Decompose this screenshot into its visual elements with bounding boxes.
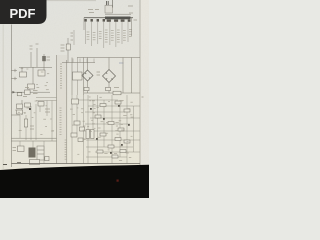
junction n1: [90, 108, 92, 110]
resistor R14: [115, 138, 121, 141]
wire v123: [122, 58, 124, 94]
resistor R6: [113, 91, 121, 95]
connector tick T1: [12, 69, 18, 72]
label C13: [45, 109, 50, 112]
capacitor C22: [45, 157, 49, 161]
pad P2: [114, 20, 118, 22]
wire v127: [126, 95, 128, 164]
resistor R10: [95, 115, 101, 118]
wire v31: [30, 106, 32, 140]
text specks: [15, 69, 133, 161]
capacitor C14: [72, 99, 79, 104]
wire h140: [86, 139, 140, 141]
wire v52: [51, 101, 53, 142]
pad P1: [107, 20, 111, 22]
wire v93: [92, 100, 94, 131]
diode D3: [106, 87, 111, 90]
wire v36: [35, 104, 37, 140]
wire h118: [90, 117, 140, 119]
wire v77: [76, 95, 78, 133]
connector arrow A1: [12, 91, 15, 94]
capacitor C13: [38, 102, 44, 107]
switch S1: [17, 93, 22, 96]
wire v120: [119, 100, 121, 157]
dense area horizontals: wire h100: [77, 99, 118, 101]
wire v47: [46, 101, 48, 117]
resistor R21 (vertical): [24, 119, 27, 127]
transistor Q1: [42, 54, 46, 67]
capacitor bank C2: [91, 19, 96, 46]
wire h157: [86, 156, 127, 158]
shaded spine strip: [57, 55, 68, 163]
cluster A: resistor R1: [30, 52, 32, 67]
resistor R19: [120, 150, 126, 153]
rail bus E: [77, 57, 140, 59]
capacitor bank C7: [122, 22, 126, 44]
bottom-left: wire h138: [12, 137, 57, 139]
wire h124: [85, 123, 130, 125]
pad P3: [121, 20, 125, 22]
junction n6: [121, 144, 123, 146]
wire bus left drop: [83, 18, 85, 30]
spine wire right: [66, 60, 68, 164]
capacitor bank C3: [97, 19, 102, 44]
scan grain overlay: [0, 0, 149, 170]
resistor R12: [118, 128, 124, 131]
wire h112: [85, 111, 125, 113]
page left border wire: [10, 25, 12, 168]
fuse F1: [18, 146, 25, 152]
wire h106: [88, 105, 140, 107]
vertical caption 3: [65, 140, 67, 159]
label R5: [23, 88, 38, 97]
page right edge line: [139, 0, 141, 165]
junction n3: [103, 118, 105, 120]
wire v79: [77, 58, 79, 96]
wire BR2 top: [108, 58, 110, 70]
capacitor bank C1: [84, 19, 89, 44]
right margin lighter strip: [141, 0, 150, 170]
label above bus 1: [88, 10, 99, 13]
relay K1: [20, 72, 27, 77]
label bottom-left 1: [3, 164, 7, 166]
page edge faint line: [2, 25, 4, 170]
spine wire left: [56, 55, 58, 164]
diode D1: [66, 38, 70, 63]
label BR1: [97, 72, 101, 75]
wire h115: [12, 114, 21, 116]
capacitor C11: [17, 110, 23, 114]
capacitor C17: [71, 133, 77, 137]
wire tick B2: [79, 59, 81, 63]
wire tick B4: [93, 59, 95, 63]
wire v97: [97, 95, 99, 164]
wire drop d40: [43, 141, 45, 164]
diode D2: [84, 87, 89, 90]
resistor R5: [25, 90, 31, 94]
pin 3 of J1: [111, 0, 113, 8]
wire v131b: [131, 58, 133, 94]
vertical caption 1: [60, 64, 62, 88]
pin 1 of J1: [106, 1, 108, 5]
junction n5: [96, 138, 98, 140]
bottom black band: [0, 165, 149, 198]
connector tick T2: [12, 77, 18, 80]
capacitor bank C6: [116, 22, 120, 47]
capacitor bank C5: [110, 22, 114, 45]
wire under J1: [105, 13, 131, 15]
node bus D: [84, 92, 140, 94]
capacitor C15: [74, 121, 80, 125]
resistor R16: [108, 145, 114, 148]
bus thick segment: [105, 17, 131, 20]
wire node bus B: [62, 62, 95, 64]
pin 2 of J1: [107, 1, 109, 5]
label top-right 1: [128, 5, 133, 7]
left circuit: wire drop a: [21, 67, 23, 72]
wire h100b: [36, 100, 57, 102]
resistor R7: [100, 104, 106, 107]
wire v83: [83, 58, 85, 96]
resistor R4: [38, 70, 45, 76]
resistor R20 hanging: [73, 30, 75, 45]
capacitor C12: [25, 103, 31, 107]
switch S2: [30, 160, 40, 165]
capacitor C21: [91, 130, 94, 139]
connector J1 (top block): [105, 5, 113, 13]
svg-text:PDF: PDF: [10, 6, 36, 21]
resistor R11: [108, 122, 114, 125]
wire v133: [133, 106, 135, 152]
junction n4: [128, 124, 130, 126]
resistor R17: [97, 150, 103, 153]
label D1: [61, 45, 65, 51]
wire drop b: [32, 67, 34, 84]
wire v20: [19, 115, 21, 138]
PDF badge: [0, 0, 47, 24]
resistor R18: [112, 155, 118, 158]
wire h97: [36, 97, 57, 99]
label R20: [71, 33, 74, 40]
wire v26: [25, 115, 27, 140]
resistor R3: [28, 84, 35, 89]
label R6: [114, 87, 119, 89]
resistor R8: [115, 101, 121, 104]
resistor R15: [124, 140, 130, 143]
left-mid: wire v22: [21, 100, 23, 115]
capacitor bank C8: [128, 22, 132, 42]
wire BR1 bottom: [87, 81, 89, 93]
wire v112: [111, 95, 113, 164]
resistor R9: [124, 109, 130, 112]
wire v104: [103, 100, 105, 147]
wire h131: [85, 130, 140, 132]
junction n2: [118, 105, 120, 107]
capacitor C10: [17, 104, 23, 109]
ground bus: [12, 163, 141, 165]
capacitor bank C4: [103, 19, 108, 48]
node bus C: [12, 91, 51, 93]
wire tick B1: [72, 59, 74, 63]
wire BR1 top: [87, 58, 89, 71]
wire node bus A: [19, 66, 52, 68]
wire tick B3: [86, 59, 88, 63]
capacitor C16: [80, 127, 85, 131]
dense verticals: wire v88: [87, 95, 89, 164]
junction n8: [29, 108, 31, 110]
resistor R13: [100, 133, 106, 136]
wire BR2 bottom: [108, 83, 110, 94]
relay K2: [37, 146, 44, 160]
margin mark: [142, 96, 144, 98]
label R2: [36, 43, 39, 45]
bridge rectifier BR1: [82, 70, 93, 81]
label Q1: [47, 57, 51, 60]
label R1: [30, 46, 33, 49]
vertical caption 2: [60, 108, 62, 134]
pad P4: [128, 20, 131, 22]
wire h152: [95, 151, 140, 153]
top edge smudge: [46, 0, 96, 2]
label R21: [30, 126, 34, 129]
label bottom-left 2: [17, 162, 21, 164]
bridge rectifier BR2: [103, 70, 116, 83]
transformer T10: [29, 148, 36, 158]
paper background: [0, 0, 149, 198]
right block wires: wire v72: [71, 58, 73, 96]
wire drop d20: [19, 141, 21, 146]
wire right corner drop: [131, 18, 133, 36]
wire drop c: [43, 67, 45, 70]
label top-right 2: [129, 12, 133, 14]
resistor R2: [36, 48, 38, 67]
regulator U1: [73, 72, 83, 80]
wire v83b: [83, 95, 85, 164]
label top-right 3: [134, 19, 138, 21]
label F1: [13, 148, 17, 151]
wire v72b: [71, 95, 73, 164]
wire drop d33: [32, 141, 34, 148]
wire h147: [86, 146, 133, 148]
capacitor C18: [78, 138, 83, 142]
capacitor C20: [86, 130, 89, 139]
red speck: [117, 180, 119, 182]
label BR2: [119, 62, 124, 64]
wire v40: [39, 106, 41, 112]
bus B1: [84, 17, 133, 19]
junction n7: [110, 152, 112, 154]
wire h141: [12, 140, 57, 142]
